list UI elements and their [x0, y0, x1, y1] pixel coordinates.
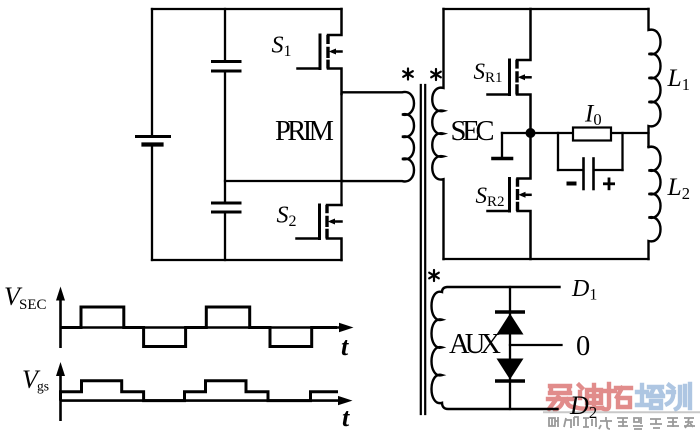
transistor S1 [298, 9, 342, 94]
capacitor C3 output [558, 133, 623, 189]
wire top rail (primary side) [152, 8, 342, 10]
current source I0 box [573, 128, 611, 141]
svg-text:PRIM: PRIM [275, 116, 334, 147]
capacitor C2 [213, 203, 241, 212]
winding primary [343, 92, 414, 182]
wire left rail lower [151, 147, 153, 261]
watermark subtitle 射频和天线设计专家 [549, 417, 695, 429]
label plus [603, 178, 615, 191]
transistor SR2 [488, 133, 531, 259]
wire bottom rail (secondary side) [444, 258, 649, 260]
polarity asterisk secondary [431, 69, 441, 80]
wire output mid line [502, 132, 649, 134]
transistor SR1 [488, 9, 531, 133]
watermark text 易迪拓培训 [548, 384, 690, 410]
wire center tap [510, 344, 562, 346]
svg-text:gs: gs [37, 379, 49, 394]
inductor L1 [649, 9, 661, 147]
diode D2 [495, 359, 525, 382]
wire capacitor leg middle [224, 73, 226, 202]
inductor L2 [649, 147, 661, 259]
axis Vgs [61, 373, 340, 421]
wire diode column [509, 287, 511, 409]
label minus [567, 182, 577, 186]
polarity asterisk auxiliary [429, 270, 439, 281]
wire capacitor leg upper [224, 9, 226, 60]
svg-text:t: t [341, 332, 349, 361]
capacitor C1 [213, 62, 241, 72]
wire primary return (mid line) [225, 180, 343, 182]
svg-text:t: t [342, 403, 350, 432]
wire capacitor leg lower [224, 214, 226, 261]
transformer core [421, 85, 425, 414]
axis VSEC [61, 297, 341, 348]
ground stub [493, 133, 512, 159]
transistor S2 [297, 205, 342, 260]
node junction dot [526, 128, 536, 138]
polarity asterisk primary [403, 69, 413, 80]
waveform Vgs [61, 381, 339, 401]
wire left rail upper [151, 9, 153, 136]
watermark underline [543, 411, 700, 413]
svg-text:SEC: SEC [19, 297, 47, 313]
winding secondary [432, 9, 443, 259]
waveform VSEC [61, 307, 338, 347]
svg-text:AUX: AUX [449, 329, 501, 360]
diode D1 [495, 312, 525, 335]
battery V1 [137, 137, 170, 145]
svg-text:0: 0 [576, 331, 590, 362]
svg-text:SEC: SEC [451, 116, 495, 147]
winding auxiliary [432, 287, 560, 409]
wire top rail (secondary side) [444, 8, 649, 10]
wire bottom rail (primary side) [152, 259, 342, 261]
wire switch-node rail [340, 94, 342, 205]
